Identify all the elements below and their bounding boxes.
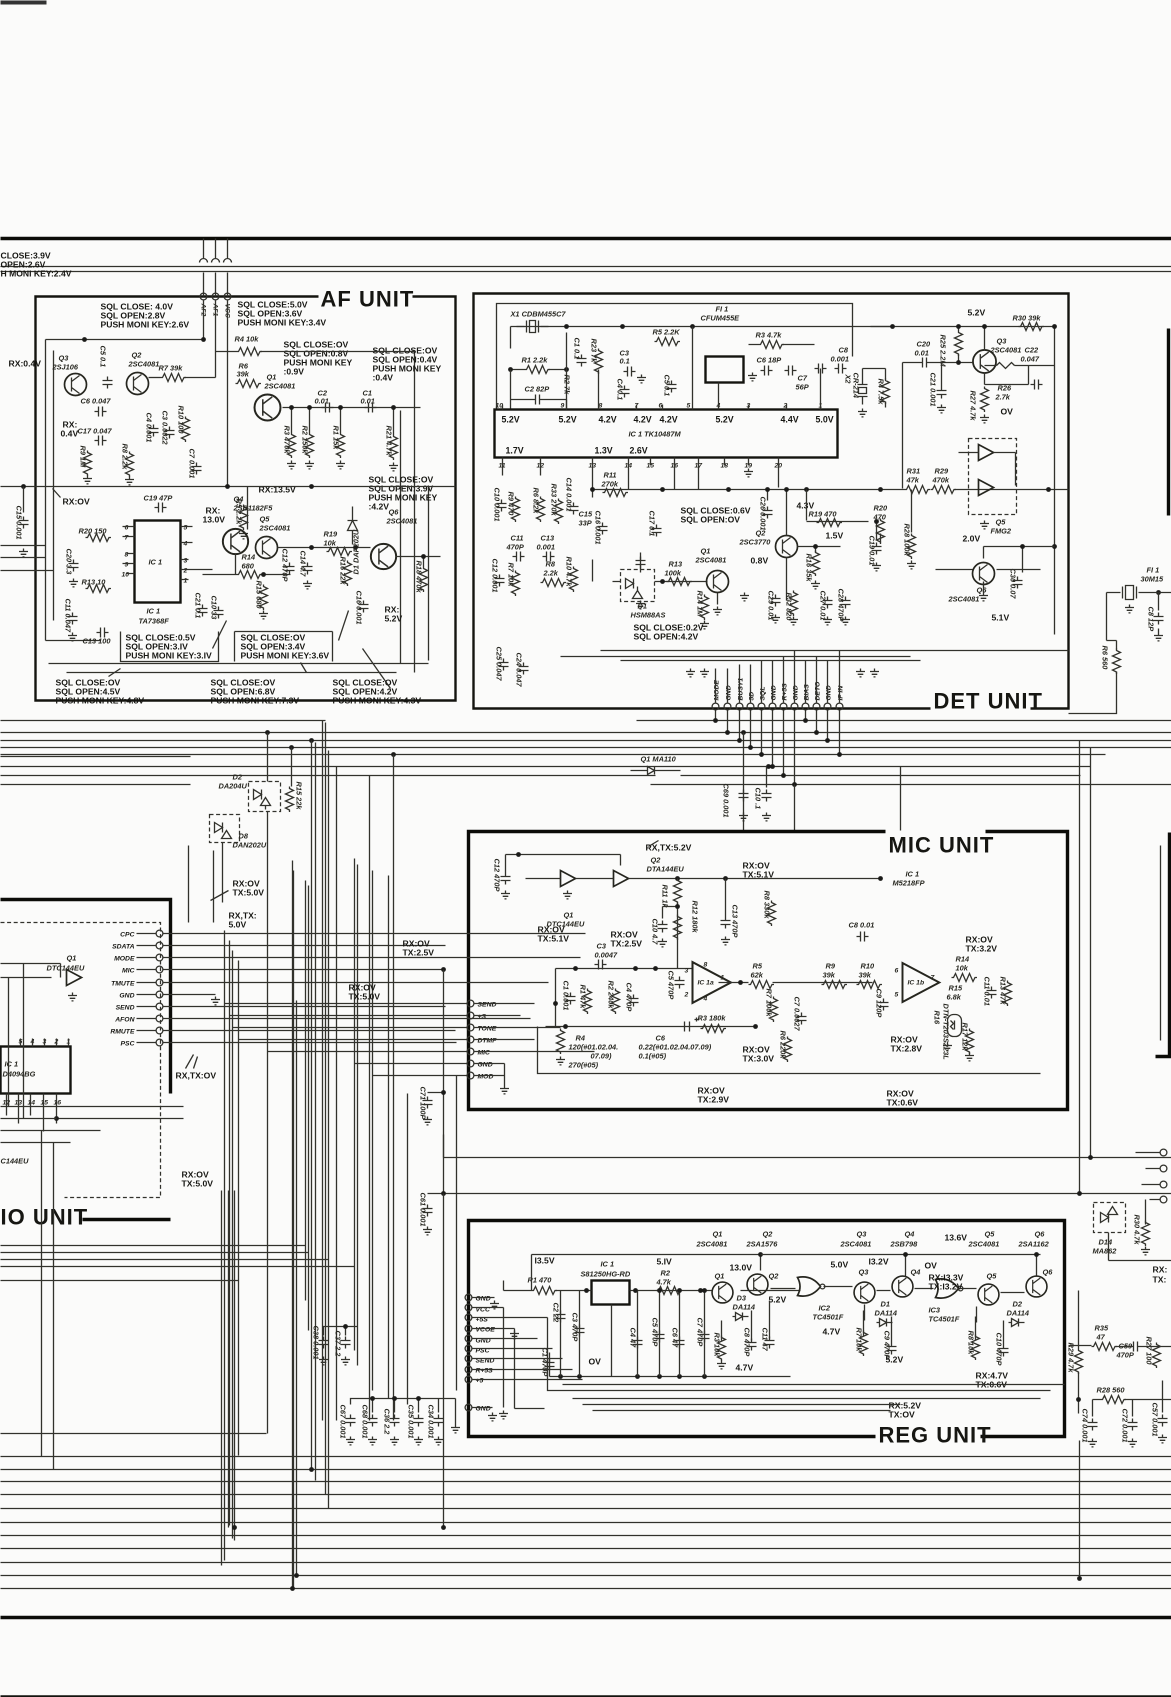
svg-text:C2 82P: C2 82P <box>525 385 550 394</box>
wire opamp out <box>719 983 873 985</box>
wires dropping from band left-mid <box>268 721 394 1421</box>
svg-text:5: 5 <box>184 525 188 532</box>
svg-text:RX:OVTX:2.9V: RX:OVTX:2.9V <box>698 1086 730 1105</box>
svg-text:C30.1: C30.1 <box>620 349 630 366</box>
buffer 2 <box>979 480 994 496</box>
bus wire h4 <box>1 747 1171 749</box>
svg-text:RX:OVTX:5.0V: RX:OVTX:5.0V <box>182 1170 214 1189</box>
svg-text:X1 CDBM455C7: X1 CDBM455C7 <box>510 310 567 319</box>
mic internal wires <box>475 1004 595 1086</box>
svg-text:C10 33: C10 33 <box>210 596 219 621</box>
svg-text:RX:0.4V: RX:0.4V <box>9 359 42 369</box>
bottom long line 10 <box>1 1575 1171 1577</box>
svg-text:RX:OVTX:0.6V: RX:OVTX:0.6V <box>887 1089 919 1108</box>
svg-text:C756P: C756P <box>796 374 809 392</box>
svg-text:MODE: MODE <box>714 680 721 701</box>
svg-text:RX:OVTX:5.1V: RX:OVTX:5.1V <box>743 861 775 880</box>
svg-text:IC 1b: IC 1b <box>908 980 925 987</box>
svg-text:C200.01: C200.01 <box>915 340 931 358</box>
svg-text:9: 9 <box>125 562 129 569</box>
thick corner bracket top <box>1 900 171 1094</box>
svg-text:+S: +S <box>478 1014 487 1021</box>
svg-text:RX:OVTX:3.2V: RX:OVTX:3.2V <box>966 935 998 954</box>
svg-text:5.2V: 5.2V <box>769 1295 787 1305</box>
svg-text:2: 2 <box>183 568 188 575</box>
svg-text:9: 9 <box>561 403 565 410</box>
ground filter <box>748 373 757 381</box>
svg-text:C35 0.001: C35 0.001 <box>407 1405 416 1439</box>
svg-text:MIC: MIC <box>478 1050 491 1057</box>
bottom connector wires <box>561 651 1069 661</box>
svg-text:RX:0.4V: RX:0.4V <box>61 420 79 439</box>
svg-text:R29 4.7k: R29 4.7k <box>1067 1343 1076 1374</box>
svg-text:RX:OV: RX:OV <box>63 497 90 507</box>
svg-text:Q4: Q4 <box>911 1268 921 1277</box>
svg-text:C14 4.7: C14 4.7 <box>299 551 308 578</box>
svg-text:R27 4.7k: R27 4.7k <box>969 391 978 422</box>
internal bus to right <box>515 1318 1065 1411</box>
wire Q1 out rail <box>283 407 421 409</box>
svg-text:DTMF: DTMF <box>478 1038 498 1045</box>
IC1 D4094BG body <box>1 1047 71 1094</box>
bottom page edge <box>1 1695 1171 1697</box>
svg-text:R4 10k: R4 10k <box>235 335 260 344</box>
mic pins <box>478 1002 498 1081</box>
caps top rail <box>351 1399 456 1425</box>
svg-text:5.2V: 5.2V <box>886 1355 904 1365</box>
svg-text:0.1(#05): 0.1(#05) <box>639 1052 667 1061</box>
svg-text:X2: X2 <box>844 374 853 385</box>
ground below C4 <box>637 375 646 383</box>
svg-text:C67 0.001: C67 0.001 <box>339 1405 348 1439</box>
wire R4 rail <box>216 351 237 353</box>
svg-text:8: 8 <box>704 962 708 969</box>
svg-text:C20.01: C20.01 <box>315 389 329 406</box>
svg-text:R262.7k: R262.7k <box>995 384 1012 402</box>
opamp IC1a <box>693 962 731 1003</box>
svg-text:C21 0.001: C21 0.001 <box>929 373 938 407</box>
diode D14 MA862 dashed <box>1094 1203 1126 1233</box>
svg-text:C10 0.001: C10 0.001 <box>493 488 502 522</box>
wire: top thin rail B <box>1 271 1171 273</box>
AF unit box <box>36 297 456 701</box>
svg-text:R+5S: R+5S <box>476 1368 494 1375</box>
svg-text:5D: 5D <box>749 692 756 701</box>
svg-text:C3 470P: C3 470P <box>571 1313 580 1342</box>
svg-text:C6: C6 <box>656 1034 666 1043</box>
svg-text:RX,TX:OV: RX,TX:OV <box>176 1071 217 1081</box>
bottom long line 9 <box>1 1562 1171 1564</box>
vertical pair to C69/C70 <box>744 733 767 788</box>
svg-text:RX:OVTX:2.5V: RX:OVTX:2.5V <box>403 939 435 958</box>
svg-text:Q1 MA110: Q1 MA110 <box>641 755 677 764</box>
svg-text:120(#01.02.04.: 120(#01.02.04. <box>569 1043 619 1052</box>
connector stub wires above <box>716 651 840 703</box>
wire AF1 <box>212 239 220 297</box>
svg-text:R25 2.2M: R25 2.2M <box>939 335 948 368</box>
bus wire h2 <box>1 732 1171 734</box>
right side vertical wires <box>401 352 429 673</box>
inner filter frame <box>497 304 853 409</box>
svg-text:IO UNIT: IO UNIT <box>1 1205 89 1230</box>
svg-text:0.22(#01.02.04.07.09): 0.22(#01.02.04.07.09) <box>639 1043 712 1052</box>
right connector circles <box>1160 1149 1167 1156</box>
svg-text:4.7V: 4.7V <box>736 1363 754 1373</box>
wire D1 to Q1 <box>593 560 708 582</box>
svg-text:GND: GND <box>771 685 778 700</box>
svg-text:RX:OVTX:3.0V: RX:OVTX:3.0V <box>743 1045 775 1064</box>
svg-text:R11 1k: R11 1k <box>661 885 670 909</box>
svg-text:2.6V: 2.6V <box>630 446 648 456</box>
svg-text:AF UNIT: AF UNIT <box>321 287 415 312</box>
svg-text:R3147k: R3147k <box>906 467 921 485</box>
svg-text:2.0V: 2.0V <box>963 534 981 544</box>
svg-text:5: 5 <box>895 992 899 999</box>
feeder rows into MIC pins <box>225 1004 467 1076</box>
svg-text:1.3V: 1.3V <box>595 446 613 456</box>
svg-text:3: 3 <box>685 968 689 975</box>
svg-text:4.7V: 4.7V <box>823 1327 841 1337</box>
svg-text:DTN-T203S223L: DTN-T203S223L <box>942 1004 951 1061</box>
diode D1 HSM88AS dashed <box>621 570 655 602</box>
svg-text:C8 12P: C8 12P <box>1147 607 1156 632</box>
wire AF2 inside <box>203 301 205 341</box>
svg-text:4.2V: 4.2V <box>634 415 652 425</box>
svg-text:C25 0.047: C25 0.047 <box>495 647 504 682</box>
svg-text:C26 0.001: C26 0.001 <box>759 497 768 531</box>
svg-text:5.0V: 5.0V <box>831 1260 849 1270</box>
svg-text:C3: C3 <box>597 942 607 951</box>
svg-text:4: 4 <box>703 996 708 1003</box>
svg-text:6: 6 <box>125 525 129 532</box>
MIC unit box <box>469 832 1068 1110</box>
svg-text:DETO: DETO <box>815 681 822 700</box>
svg-text:R6 560: R6 560 <box>1101 646 1110 671</box>
svg-text:16: 16 <box>54 1100 62 1107</box>
cap feeder verticals <box>561 1291 1004 1377</box>
svg-text:10: 10 <box>122 572 130 579</box>
gate IC3 <box>936 1279 959 1298</box>
IO connector label lines <box>137 934 157 1043</box>
svg-text:R1910k: R1910k <box>324 530 338 548</box>
ground row <box>686 669 695 677</box>
Q3 rails <box>871 327 1055 635</box>
svg-text:RX:OVTX:5.0V: RX:OVTX:5.0V <box>349 983 381 1002</box>
svg-text:1: 1 <box>721 975 725 982</box>
wire VCC inside <box>227 301 229 487</box>
svg-text:GND: GND <box>826 685 833 700</box>
svg-text:C6 0.047: C6 0.047 <box>81 397 112 406</box>
mic internal rails <box>538 969 1041 1074</box>
svg-text:C7 470P: C7 470P <box>696 1318 705 1347</box>
svg-text:13.0V: 13.0V <box>730 1263 753 1273</box>
svg-text:R639k: R639k <box>237 362 250 379</box>
svg-text:IC 1 TK10487M: IC 1 TK10487M <box>629 430 682 439</box>
svg-text:IF IN: IF IN <box>838 685 845 701</box>
gate to transistor wires <box>761 1255 1041 1323</box>
svg-text:C11 0.01: C11 0.01 <box>983 977 992 1006</box>
svg-text:C5 470P: C5 470P <box>651 1318 660 1347</box>
bottom long line 7 <box>1 1535 1171 1537</box>
bottom long line 0 <box>1 1433 267 1435</box>
bottom long line 4 <box>1 1494 1171 1496</box>
svg-text:OV: OV <box>1001 407 1014 417</box>
svg-text:R15 22k: R15 22k <box>295 782 304 811</box>
dashed box Q5 <box>969 439 1017 515</box>
svg-text:R1 2.2k: R1 2.2k <box>522 356 549 365</box>
pin stubs bottom <box>503 458 779 498</box>
wire mic top rail <box>506 841 881 879</box>
bottom long line 5 <box>1 1508 1171 1510</box>
svg-text:GND: GND <box>476 1406 491 1413</box>
svg-text:5.2V: 5.2V <box>502 415 520 425</box>
svg-text:C27 0.01: C27 0.01 <box>819 591 828 621</box>
svg-text:MOD: MOD <box>478 1074 494 1081</box>
svg-text:MODE: MODE <box>114 956 135 963</box>
svg-text:DET UNIT: DET UNIT <box>934 689 1043 714</box>
svg-text:C16 0.001: C16 0.001 <box>594 511 603 545</box>
svg-text:C19 47P: C19 47P <box>144 494 173 503</box>
REG unit box <box>469 1221 1065 1437</box>
svg-text:Q3: Q3 <box>859 1268 870 1277</box>
thick corner bracket bottom <box>83 1218 171 1221</box>
svg-text:R30 4.7k: R30 4.7k <box>1133 1215 1142 1246</box>
wire: main top thick rail <box>1 237 1171 240</box>
svg-text:R14680: R14680 <box>242 553 256 571</box>
svg-text:R30 39k: R30 39k <box>1013 314 1042 323</box>
svg-text:C8 0.01: C8 0.01 <box>849 921 875 930</box>
svg-text:270(#05): 270(#05) <box>568 1061 599 1070</box>
note box left <box>121 632 219 662</box>
ground row under det parts <box>700 621 709 629</box>
bus wire h7 <box>1 775 1081 777</box>
right wires <box>1069 1291 1171 1417</box>
svg-text:IC 1: IC 1 <box>149 558 163 567</box>
svg-text:C4 0.001: C4 0.001 <box>145 413 154 443</box>
bus wire h9 <box>1 756 191 758</box>
REG pins <box>476 1296 496 1413</box>
svg-text:C59470P: C59470P <box>1116 1342 1134 1360</box>
diode D8 DAN202U dashed <box>210 815 240 843</box>
svg-text:C11 0.047: C11 0.047 <box>64 599 73 633</box>
svg-text:5.IV: 5.IV <box>657 1257 673 1267</box>
vertical drop to bottom dot <box>1079 1441 1081 1579</box>
left horizontal feeder wires <box>1 1107 355 1281</box>
leader strokes <box>109 611 391 689</box>
right page-edge unit border <box>1167 329 1170 516</box>
svg-text:C7 0.001: C7 0.001 <box>188 449 197 479</box>
gate IC2 <box>798 1277 821 1296</box>
svg-text:R23 7k: R23 7k <box>590 339 599 364</box>
svg-text:1.5V: 1.5V <box>826 531 844 541</box>
svg-text:R27 100: R27 100 <box>1145 1337 1154 1366</box>
wire VCC <box>224 239 232 297</box>
svg-text:R19 470: R19 470 <box>809 510 838 519</box>
svg-text:R11270k: R11270k <box>601 471 619 489</box>
svg-text:SDATA: SDATA <box>112 944 134 951</box>
svg-text:C20 3.3: C20 3.3 <box>65 549 74 576</box>
svg-text:07.09): 07.09) <box>591 1052 612 1061</box>
bottom inner wires <box>49 664 429 673</box>
svg-text:TONE: TONE <box>478 1026 497 1033</box>
svg-text:R+5S: R+5S <box>782 683 789 701</box>
svg-text:SEND: SEND <box>116 1005 135 1012</box>
svg-text:C5 470P: C5 470P <box>667 971 676 1000</box>
svg-text:15: 15 <box>41 1100 49 1107</box>
svg-text:IC 1a: IC 1a <box>698 980 714 987</box>
bus wire h8 <box>1 784 1171 786</box>
top rail wire <box>504 1281 801 1291</box>
right page-edge unit border lower <box>1156 833 1171 1057</box>
svg-text:PSC: PSC <box>121 1041 135 1048</box>
connector labels <box>714 678 845 701</box>
DET unit box <box>474 294 1069 709</box>
svg-text:RX:I3.3VTX:I3.2V: RX:I3.3VTX:I3.2V <box>929 1273 964 1292</box>
left edge stubs <box>1 487 54 571</box>
svg-text:AFON: AFON <box>114 1017 135 1024</box>
svg-text:R3 4.7k: R3 4.7k <box>756 331 783 340</box>
transistor Q6 <box>973 563 995 585</box>
svg-text:4.4V: 4.4V <box>781 415 799 425</box>
svg-text:4: 4 <box>183 541 188 548</box>
bottom long line 11 <box>1 1588 1171 1590</box>
svg-text:VCOE: VCOE <box>476 1327 496 1334</box>
svg-text:5.2V: 5.2V <box>968 308 986 318</box>
long vertical right <box>1080 741 1171 1261</box>
bottom long line 6 <box>1 1522 1171 1524</box>
svg-text:0.8V: 0.8V <box>751 556 769 566</box>
vertical MIC wire x443 <box>443 970 445 1093</box>
left edge stub wires <box>1 964 101 1143</box>
svg-text:C57 0.001: C57 0.001 <box>1151 1403 1160 1437</box>
svg-text:GND: GND <box>119 993 134 1000</box>
svg-text:14: 14 <box>28 1100 36 1107</box>
svg-text:5.2V: 5.2V <box>559 415 577 425</box>
bus wire h3 <box>1 740 1171 742</box>
svg-text:GND: GND <box>478 1062 493 1069</box>
svg-text:2: 2 <box>684 992 689 999</box>
svg-text:OV: OV <box>589 1357 602 1367</box>
vertical feeders below IC <box>629 466 912 536</box>
svg-text:4.2V: 4.2V <box>660 415 678 425</box>
svg-text:C10 .1: C10 .1 <box>754 788 763 810</box>
svg-text:TMUTE: TMUTE <box>111 981 135 988</box>
svg-text:OV: OV <box>925 1261 938 1271</box>
wire: top thin rail A <box>1 266 1171 268</box>
svg-text:C3 0.0022: C3 0.0022 <box>161 411 170 446</box>
svg-text:SQL CLOSE:0.2VSQL OPEN:4.2V: SQL CLOSE:0.2VSQL OPEN:4.2V <box>634 623 704 642</box>
wire Q5 to Q6 rail <box>236 487 371 575</box>
svg-text:C144EU: C144EU <box>1 1157 30 1166</box>
svg-text:R7 39k: R7 39k <box>159 364 184 373</box>
bus wire h5 <box>1 754 1106 756</box>
verticals down from DET to MIC top <box>744 721 961 831</box>
svg-text:RX:4.7VTX:0.6V: RX:4.7VTX:0.6V <box>976 1371 1009 1390</box>
svg-text:REG UNIT: REG UNIT <box>879 1423 992 1448</box>
svg-text:C12 0.001: C12 0.001 <box>491 559 500 593</box>
svg-text:GND: GND <box>476 1296 491 1303</box>
svg-text:5: 5 <box>687 403 691 410</box>
svg-text:C68 0.001: C68 0.001 <box>361 1405 370 1439</box>
svg-text:C13 100: C13 100 <box>83 637 112 646</box>
svg-text:C29 0.01: C29 0.01 <box>767 591 776 621</box>
left vertical bundle <box>9 964 54 1470</box>
wire Q2-R7 <box>149 377 161 379</box>
svg-text:C11 47: C11 47 <box>761 1328 770 1352</box>
svg-text:5.1V: 5.1V <box>992 613 1010 623</box>
svg-text:C16 0.001: C16 0.001 <box>355 591 364 625</box>
bus wire h6 <box>1 766 1091 768</box>
mid rail wire <box>1 486 456 488</box>
IO connector labels <box>110 932 135 1048</box>
svg-text:C7 0.0027: C7 0.0027 <box>793 997 802 1032</box>
svg-text:C4 470P: C4 470P <box>625 983 634 1012</box>
svg-text:C71 100P: C71 100P <box>419 1087 428 1120</box>
svg-text:R28 560: R28 560 <box>1097 1386 1126 1395</box>
svg-text:GND: GND <box>793 685 800 700</box>
svg-text:C12 470P: C12 470P <box>281 549 290 582</box>
wire from FI1 down <box>1069 593 1117 714</box>
vertical drops from DET connector <box>716 710 840 785</box>
svg-text:1.7V: 1.7V <box>506 446 524 456</box>
IC1 TA7368F body <box>135 521 181 603</box>
svg-text:R29470k: R29470k <box>932 467 950 485</box>
svg-text:CPC: CPC <box>120 932 134 939</box>
svg-text:C34 0.001: C34 0.001 <box>427 1405 436 1439</box>
svg-text:C21 0.1: C21 0.1 <box>194 593 203 619</box>
svg-text:6: 6 <box>895 968 899 975</box>
extra det plumbing <box>641 522 881 605</box>
svg-text:3: 3 <box>184 558 188 565</box>
wires out of IO connector <box>164 934 586 1043</box>
svg-text:C1 0.001: C1 0.001 <box>562 981 571 1011</box>
svg-text:MIC: MIC <box>122 968 135 975</box>
transistor Q2 buffer <box>614 871 629 887</box>
connector circles <box>712 703 719 710</box>
wire row 1193 <box>428 1135 1171 1194</box>
pin stubs top <box>503 327 821 410</box>
svg-text:C2 22: C2 22 <box>552 1303 561 1324</box>
svg-text:RX:OVTX:2.8V: RX:OVTX:2.8V <box>891 1035 923 1054</box>
svg-text:5.2V: 5.2V <box>716 415 734 425</box>
svg-text:R2 7k: R2 7k <box>563 375 572 396</box>
REG pin wires <box>473 1298 583 1408</box>
svg-text:MIC UNIT: MIC UNIT <box>889 833 995 858</box>
wire mic mod row <box>428 1093 1171 1158</box>
svg-text:8: 8 <box>125 552 129 559</box>
opamp IC1b <box>903 963 940 1002</box>
svg-text:C1 0.1: C1 0.1 <box>573 338 582 360</box>
svg-text:R18 470k: R18 470k <box>415 561 424 594</box>
svg-text:Q1: Q1 <box>715 1272 725 1281</box>
bus wire h1 <box>1 720 1171 722</box>
svg-text:R16: R16 <box>933 1011 942 1025</box>
bottom long line 2 <box>1 1469 1171 1471</box>
svg-text:13.6V: 13.6V <box>945 1233 968 1243</box>
svg-text:I3.2V: I3.2V <box>869 1257 889 1267</box>
bottom rail <box>550 1353 791 1377</box>
smudge top-left <box>1 1 47 5</box>
transistor Q1 buffer <box>561 871 576 887</box>
svg-text:4.2V: 4.2V <box>599 415 617 425</box>
svg-text:Q2: Q2 <box>769 1272 780 1281</box>
svg-text:C6 18P: C6 18P <box>757 356 782 365</box>
wire det mid rail <box>593 489 1069 491</box>
svg-text:C1533P: C1533P <box>579 510 593 528</box>
svg-text:C17 0.047: C17 0.047 <box>78 427 113 436</box>
top rail wire <box>511 326 893 349</box>
IO unit dashed border <box>1 923 161 1198</box>
